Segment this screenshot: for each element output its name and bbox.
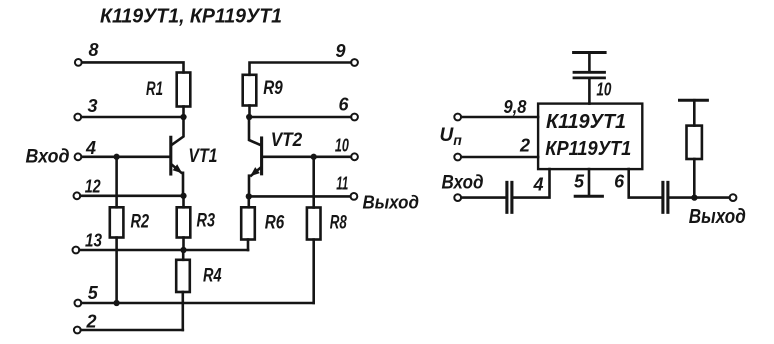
wire R2 bottom to pin5 line: [115, 238, 118, 304]
svg-text:2: 2: [519, 136, 530, 156]
capacitor C2 (input): [507, 182, 512, 212]
wire R6 bottom to pin13 line: [247, 240, 250, 251]
junction R1/pin3/collector: [180, 114, 186, 120]
junction R2/pin5: [113, 300, 119, 306]
svg-text:9: 9: [336, 41, 346, 61]
resistor R2: [110, 207, 149, 237]
wire R4 bottom to pin2 line: [182, 292, 185, 330]
svg-text:Вход: Вход: [26, 147, 70, 168]
svg-text:VT2: VT2: [271, 129, 303, 151]
resistor R4: [176, 250, 221, 292]
terminal pin 2: [74, 312, 97, 334]
wire R3 bottom stem: [182, 238, 185, 251]
svg-text:2: 2: [86, 312, 97, 332]
wire pin10 base line: [263, 156, 351, 159]
wire box pin 5 down: [588, 169, 591, 195]
svg-text:6: 6: [339, 95, 350, 115]
wire pin4 base line: [82, 156, 169, 159]
supply rail bar over C1: [574, 51, 606, 54]
svg-text:R1: R1: [146, 78, 163, 100]
svg-text:R8: R8: [330, 212, 347, 234]
ground bar pin 5: [575, 195, 602, 198]
wire C3 to output: [669, 196, 729, 199]
op-amp U1 box К119УТ1: [538, 104, 642, 170]
resistor R1: [146, 73, 190, 107]
svg-text:VT1: VT1: [188, 145, 217, 167]
svg-text:13: 13: [85, 231, 102, 251]
wire pin9 to R9 top: [250, 63, 351, 75]
junction pin4/R2: [113, 154, 119, 160]
terminal pin 12: [74, 177, 101, 200]
svg-text:Выход: Выход: [689, 206, 746, 228]
wire pin5 line: [82, 302, 314, 305]
wire C1 to box pin 10: [588, 79, 591, 103]
terminal pin 13: [73, 231, 103, 254]
wire R1 bottom to node: [182, 107, 185, 118]
svg-text:5: 5: [574, 171, 585, 191]
resistor R load: [687, 126, 702, 159]
svg-text:Вход: Вход: [442, 172, 484, 193]
wire C2 to box pin 4: [513, 169, 549, 198]
svg-text:10: 10: [596, 80, 611, 100]
terminal pins 9,8: [454, 97, 526, 120]
resistor R9: [243, 75, 283, 106]
wire pin6 line: [249, 116, 351, 119]
terminal output right: [730, 194, 737, 201]
svg-text:КР119УТ1: КР119УТ1: [545, 138, 631, 160]
terminal pin 6: [339, 95, 358, 121]
junction emitter/R3/pin12: [180, 193, 186, 199]
svg-text:R2: R2: [131, 211, 150, 233]
svg-text:R9: R9: [263, 77, 283, 99]
svg-text:3: 3: [88, 96, 98, 116]
wire pin13 line: [80, 249, 249, 252]
wire R2 top stem: [115, 157, 118, 208]
wire R9 bottom to node: [248, 106, 251, 118]
wire pin8 to R1 top: [82, 62, 184, 72]
wire R8 bottom to pin5 line: [312, 240, 315, 304]
wire R3 top stem: [182, 196, 185, 208]
terminal input right: [454, 194, 461, 201]
wire box pin 6 to C3: [629, 169, 662, 198]
terminal pin 10: [335, 136, 358, 161]
junction R8/pin10: [311, 154, 317, 160]
junction R3/R4/pin13: [180, 247, 186, 253]
wire pin12 line: [81, 195, 184, 198]
transistor VT1: [171, 117, 218, 196]
resistor R8: [307, 208, 347, 240]
wire pin2 line: [81, 329, 183, 332]
junction output node: [691, 194, 697, 200]
svg-text:R6: R6: [265, 212, 285, 234]
svg-text:4: 4: [533, 175, 544, 195]
wire input to C2: [461, 196, 505, 199]
junction emitter/R6/pin11: [246, 193, 252, 199]
transistor VT2: [249, 117, 302, 196]
capacitor C3 (output): [663, 182, 668, 212]
wire pin2 to box: [461, 156, 538, 159]
svg-text:4: 4: [85, 138, 96, 158]
capacitor C1 (pin 10): [574, 72, 605, 78]
wire R load to output node: [693, 159, 696, 198]
junction R9/pin6/collector: [246, 114, 252, 120]
wire pins 9,8 to box: [461, 116, 538, 119]
svg-text:11: 11: [336, 174, 348, 194]
resistor R6: [241, 207, 284, 239]
svg-text:R3: R3: [197, 210, 216, 232]
svg-text:R4: R4: [203, 265, 222, 287]
svg-text:8: 8: [89, 40, 99, 60]
svg-text:6: 6: [614, 172, 625, 192]
supply rail bar over R load: [680, 99, 708, 102]
terminal pin 2 right: [454, 136, 530, 161]
terminal pin 11: [336, 174, 357, 200]
terminal pin 9: [336, 41, 358, 66]
svg-text:5: 5: [88, 283, 99, 303]
svg-text:12: 12: [85, 177, 101, 197]
svg-text:К119УТ1: К119УТ1: [546, 111, 626, 133]
terminal pin 5: [75, 283, 99, 306]
svg-text:К119УТ1, КР119УТ1: К119УТ1, КР119УТ1: [100, 6, 282, 28]
terminal pin 3: [74, 96, 97, 120]
terminal pin 4: [75, 138, 96, 160]
wire R8 top stem: [312, 157, 315, 208]
wire bar to R load: [693, 100, 696, 125]
svg-text:9,8: 9,8: [504, 97, 527, 117]
terminal pin 8: [75, 40, 99, 66]
svg-text:10: 10: [335, 136, 349, 156]
wire pin11 line: [249, 195, 350, 198]
wire pin3 line: [81, 116, 183, 119]
wire bar to C1: [588, 53, 591, 72]
resistor R3: [177, 207, 215, 237]
svg-text:Uп: Uп: [440, 125, 463, 148]
wire R6 top stem: [248, 196, 251, 207]
svg-text:Выход: Выход: [363, 192, 420, 213]
